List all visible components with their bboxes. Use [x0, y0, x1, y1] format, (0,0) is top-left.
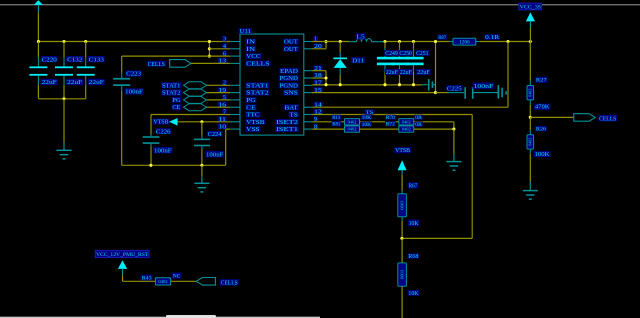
junction at C220 [37, 40, 40, 43]
svg-text:IN: IN [246, 46, 256, 53]
wire R13 to R70 [360, 121, 399, 123]
U11 pin 7 (TTC) left [230, 114, 240, 116]
svg-text:STAT2: STAT2 [162, 90, 180, 97]
svg-text:0R: 0R [415, 115, 422, 121]
svg-text:0402: 0402 [348, 119, 357, 124]
svg-text:CELLS: CELLS [148, 61, 166, 68]
svg-text:C223: C223 [126, 71, 141, 78]
svg-text:0402: 0402 [528, 138, 533, 146]
junction pins 3/4/6 tie [208, 42, 210, 57]
svg-text:0.1R: 0.1R [485, 35, 499, 41]
wire VCC to pin 6 [122, 55, 231, 57]
junction pin 18 PGND [312, 77, 326, 79]
U11 pin 4 (IN) left [230, 48, 240, 50]
value 22uF (C250) [399, 69, 413, 75]
svg-text:VTSB: VTSB [246, 119, 264, 126]
U11 pin 16 (CE) left [230, 106, 240, 108]
value 22uF (C249) [385, 69, 399, 75]
junction ISET tie [452, 128, 455, 131]
junction at C132 [62, 40, 65, 43]
resistor R70 0R [399, 119, 414, 125]
capacitor C251 22uF [413, 42, 415, 49]
power port VTSB [394, 147, 411, 153]
svg-text:L5: L5 [356, 33, 364, 40]
junction C251 [412, 40, 415, 43]
wire STAT1 to U11 [207, 84, 231, 86]
junction TS divider [400, 237, 403, 240]
gray top separator line [0, 4, 640, 5]
svg-text:100nF: 100nF [474, 83, 494, 90]
svg-text:R27: R27 [536, 78, 547, 84]
svg-text:C224: C224 [208, 131, 223, 138]
U11 pin 14 (BAT) right [304, 106, 312, 108]
svg-text:100nF: 100nF [125, 89, 143, 96]
IC U11 box [240, 34, 304, 135]
junction C226 on bus [149, 164, 152, 167]
sheet entry PG [184, 96, 207, 103]
svg-text:0402: 0402 [348, 127, 357, 132]
wire to ground [63, 99, 65, 143]
U11 pin 18 (PGND) right [304, 77, 312, 79]
svg-text:100nF: 100nF [154, 147, 172, 154]
resistor R43 NC [155, 278, 170, 285]
net arrow VTSB (pin 11) [169, 118, 178, 126]
svg-text:STAT1: STAT1 [246, 82, 268, 89]
resistor R13 10K [345, 119, 360, 125]
svg-text:0603: 0603 [400, 269, 405, 279]
svg-text:R67: R67 [409, 183, 418, 189]
value 22uF (C251) [416, 69, 430, 75]
capacitor C249 22uF [384, 42, 386, 49]
svg-text:PGND: PGND [280, 82, 299, 89]
svg-text:ISET2: ISET2 [276, 119, 298, 126]
ground (ISET) [453, 129, 455, 154]
svg-text:R70: R70 [386, 115, 395, 121]
svg-text:100nF: 100nF [206, 151, 224, 158]
U11 pin 5 (PG) left [230, 99, 240, 101]
U11 pin 8 (ISET1) right [304, 128, 312, 130]
wire to CELLS port [530, 116, 574, 118]
junction C250 [398, 40, 401, 43]
svg-text:VCC: VCC [246, 53, 260, 60]
wire from VCC arrow down [37, 12, 39, 41]
wire OUT net to inductor [312, 41, 349, 43]
U11 pin 9 (ISET2) right [304, 121, 312, 123]
U11 pin 6 (VCC) left [230, 55, 240, 57]
wire TTC (pin 7) to C226 [151, 114, 230, 116]
svg-text:470K: 470K [535, 105, 551, 111]
capacitor C250 22uF [399, 42, 401, 49]
wire R72 to ISET tie [414, 128, 454, 130]
svg-text:D11: D11 [352, 57, 364, 64]
svg-text:STAT2: STAT2 [246, 90, 268, 97]
svg-text:22uF: 22uF [400, 69, 413, 76]
svg-text:C226: C226 [156, 128, 171, 135]
wire bottom bus of input caps [38, 98, 85, 100]
svg-text:100K: 100K [535, 152, 551, 158]
svg-text:IN: IN [246, 39, 256, 46]
power port VCC_12V_PMU_RST [95, 250, 149, 257]
junction D11 on bus [339, 83, 342, 86]
U11 pin 2 (STAT1) left [230, 84, 240, 86]
svg-text:0402: 0402 [528, 89, 533, 97]
bottom window strip [0, 317, 320, 318]
junction EPAD on bus [324, 83, 327, 86]
wire R43 to CELLS port [171, 280, 197, 282]
wire TS (pin 12) to divider [312, 114, 472, 116]
svg-text:R26: R26 [536, 126, 546, 132]
wire ISET1 (pin 8) [312, 128, 344, 130]
sheet entry STAT1 [184, 82, 207, 89]
wire R68 down off-page [401, 286, 403, 318]
U11 pin 13 (CELLS) left [230, 62, 240, 64]
svg-text:0R: 0R [415, 122, 422, 128]
net label TS [365, 110, 374, 115]
wire R70 to ISET tie [414, 121, 454, 123]
svg-text:C132: C132 [67, 56, 82, 63]
junction pins 1/20 [324, 40, 327, 43]
svg-text:R81: R81 [332, 121, 340, 127]
U11 pin 20 (OUT) right [304, 48, 312, 50]
svg-text:22uF: 22uF [89, 79, 105, 86]
junction C249 on bus [383, 83, 386, 86]
resistor R68 10K [401, 238, 403, 263]
port CELLS (battery tap) [574, 114, 595, 122]
svg-text:CE: CE [246, 104, 256, 111]
svg-text:R87: R87 [438, 35, 446, 41]
svg-text:STAT1: STAT1 [162, 82, 180, 89]
wire CE to U11 [207, 106, 231, 108]
svg-text:VSS: VSS [246, 126, 260, 133]
svg-text:OUT: OUT [284, 46, 298, 53]
capacitor (series 100nF) [474, 92, 498, 94]
svg-text:C249: C249 [385, 50, 397, 57]
junction C251 on bus [412, 83, 415, 86]
wire sense tap vertical [435, 42, 437, 93]
port CELLS (bottom) [196, 278, 215, 286]
svg-text:C251: C251 [416, 50, 428, 57]
capacitor (output sense, left pair) [422, 84, 428, 86]
wire VSS (pin 10) to ground bus [226, 128, 231, 130]
junction BAT tap [506, 40, 509, 43]
inductor L5 [349, 41, 357, 43]
capacitor C226 100nF [150, 134, 152, 136]
svg-text:22uF: 22uF [42, 79, 58, 86]
svg-text:TTC: TTC [246, 112, 259, 119]
svg-text:PG: PG [246, 97, 256, 104]
svg-text:CELLS: CELLS [221, 279, 239, 286]
junction C250 on bus [398, 83, 401, 86]
ground (input caps) [63, 143, 65, 151]
wire PGND bus (pin 17) [312, 84, 422, 86]
svg-text:0603: 0603 [400, 200, 405, 210]
svg-text:R43: R43 [142, 275, 152, 281]
junction C224/ground on bus [200, 164, 203, 167]
diode D11 [339, 40, 342, 43]
svg-text:17: 17 [314, 81, 322, 87]
wire CELLS port to pin 13 [191, 62, 230, 64]
junction at C133 [84, 40, 87, 43]
wire R81 to R72 [360, 128, 399, 130]
capacitor C220 22uF [37, 42, 39, 58]
resistor R87 1206 0.1R [449, 41, 453, 43]
svg-text:NC: NC [173, 273, 181, 279]
svg-text:3: 3 [223, 37, 226, 43]
svg-text:TS: TS [290, 112, 299, 119]
sheet entry CE [184, 104, 207, 111]
wire VCC_12V_PMU_RST to R43 [122, 275, 124, 282]
U11 pin 21 (EPAD) right [304, 70, 312, 72]
sheet entry STAT2 [184, 89, 207, 96]
svg-text:PG: PG [172, 97, 181, 104]
wire VTSB to pin 11 [178, 121, 231, 123]
junction SNS [434, 91, 437, 94]
svg-text:0402: 0402 [402, 119, 411, 124]
svg-text:R72: R72 [386, 121, 395, 127]
svg-text:10K: 10K [362, 115, 372, 121]
svg-text:10: 10 [218, 124, 226, 130]
wire PG to U11 [207, 99, 231, 101]
svg-text:U11: U11 [239, 28, 251, 35]
ground (R26) [529, 182, 531, 191]
svg-text:22uF: 22uF [386, 69, 399, 76]
wire VCC_3S down [529, 28, 531, 42]
port CELLS (to pin 13) [170, 60, 191, 68]
svg-text:10K: 10K [362, 122, 372, 128]
ground (C-bus) [201, 165, 203, 176]
resistor R27 470K [529, 42, 531, 81]
capacitor C132 22uF [63, 42, 65, 58]
svg-text:OUT: OUT [284, 39, 298, 46]
svg-text:VCC_3S: VCC_3S [520, 4, 541, 10]
capacitor C224 100nF [201, 122, 203, 136]
wire VTSB to R67 [401, 175, 403, 191]
junction sense top [434, 40, 437, 43]
svg-text:R13: R13 [332, 115, 340, 121]
resistor R26 100K [529, 117, 531, 130]
wire pin 20 up to pin 1 net [312, 48, 326, 50]
svg-text:C225: C225 [447, 85, 462, 92]
U11 pin 19 (STAT2) left [230, 92, 240, 94]
svg-text:VCC_12V_PMU_RST: VCC_12V_PMU_RST [96, 252, 149, 258]
svg-text:CELLS: CELLS [246, 61, 270, 68]
U11 pin 10 (VSS) left [230, 128, 240, 130]
U11 pin 11 (VTSB) left [230, 121, 240, 123]
svg-text:ISET1: ISET1 [276, 126, 298, 133]
wire local ground bus [122, 164, 226, 166]
resistor R72 0R [399, 126, 414, 132]
wire R87 to battery node [480, 41, 530, 43]
junction VCC_3S [529, 40, 532, 43]
svg-text:VTSB: VTSB [153, 119, 168, 126]
capacitor C223 100nF [121, 56, 123, 72]
svg-text:C250: C250 [399, 50, 411, 57]
svg-text:BAT: BAT [285, 104, 299, 111]
wire inductor to R87 [384, 41, 450, 43]
U11 pin 17 (PGND) right [304, 84, 312, 86]
svg-text:C133: C133 [89, 56, 104, 63]
svg-text:10K: 10K [409, 221, 420, 227]
resistor R81 10K [345, 126, 360, 132]
svg-text:CELLS: CELLS [599, 115, 617, 122]
resistor R67 10K [401, 191, 403, 194]
svg-text:SNS: SNS [284, 90, 299, 97]
junction battery divider [529, 116, 532, 119]
power port VCC (top left) [34, 0, 43, 5]
junction input-cap bus [62, 97, 65, 100]
wire SNS (pin 15) [312, 92, 435, 94]
svg-text:CE: CE [172, 104, 180, 111]
svg-text:10K: 10K [408, 291, 419, 297]
svg-text:22uF: 22uF [417, 69, 430, 76]
U11 pin 12 (TS) right [304, 114, 312, 116]
junction C249 [383, 40, 386, 43]
capacitor C133 22uF [85, 42, 87, 58]
U11 pin 15 (SNS) right [304, 92, 312, 94]
wire STAT2 to U11 [207, 92, 231, 94]
svg-text:R68: R68 [408, 254, 418, 260]
U11 pin 1 (OUT) right [304, 41, 312, 43]
svg-text:0402: 0402 [158, 279, 168, 284]
wire to pin 4 [209, 48, 230, 50]
capacitor C225 100nF [436, 92, 449, 94]
svg-text:1206: 1206 [459, 40, 470, 46]
svg-text:22uF: 22uF [67, 79, 83, 86]
svg-text:EPAD: EPAD [280, 68, 299, 75]
wire ISET2 (pin 9) [312, 121, 344, 123]
wire pin 21 EPAD down [312, 70, 326, 72]
wire VCC rail to U11 pin 3 (IN) [38, 41, 230, 43]
power port VCC_3S [519, 3, 542, 10]
junction VTSB / C224 [200, 120, 203, 123]
svg-text:VTSB: VTSB [395, 148, 410, 154]
svg-text:0402: 0402 [402, 127, 411, 132]
wire BAT (pin 14) [312, 106, 508, 108]
U11 pin 3 (IN) left [230, 41, 240, 43]
svg-text:PGND: PGND [280, 75, 299, 82]
svg-text:C220: C220 [42, 56, 57, 63]
